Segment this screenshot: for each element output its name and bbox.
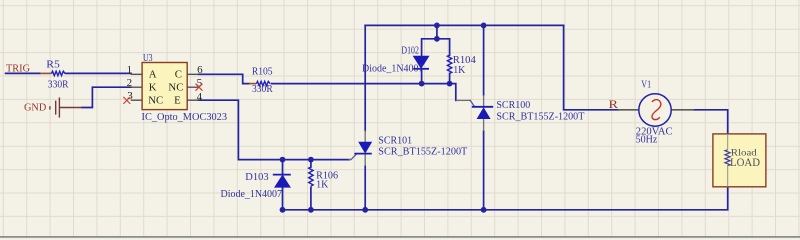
- triangle: [359, 142, 372, 153]
- wire R106 top: [310, 160, 312, 167]
- U3 pin 5: [187, 86, 198, 88]
- svg-text:SCR_BT155Z-1200T: SCR_BT155Z-1200T: [378, 147, 468, 158]
- junction D103 top on gate net: [280, 157, 286, 163]
- svg-text:R105: R105: [252, 67, 273, 78]
- U3 pin 3: [131, 99, 142, 101]
- no-ERC cross pin 5: [196, 84, 203, 91]
- svg-text:D103: D103: [245, 172, 268, 183]
- wire SCR101 cathode to bottom rail: [364, 166, 366, 210]
- svg-text:K: K: [149, 81, 157, 93]
- junction R104 bottom on net: [447, 81, 453, 87]
- diode D103: [273, 175, 291, 188]
- load Rload body: [713, 134, 766, 187]
- svg-text:NC: NC: [148, 94, 163, 106]
- diode D102: [413, 56, 429, 69]
- svg-text:GND: GND: [24, 102, 46, 114]
- svg-text:330R: 330R: [48, 80, 69, 91]
- wire R106 bottom: [310, 187, 312, 210]
- resistor R105: [249, 81, 270, 85]
- svg-text:A: A: [149, 68, 157, 80]
- wire SCR100 anode to bottom rail: [483, 131, 485, 210]
- SCR100: [456, 95, 493, 131]
- no-ERC cross pin 3: [123, 97, 130, 104]
- op-to coupler U3 body: [142, 63, 187, 110]
- svg-text:330R: 330R: [252, 84, 273, 95]
- svg-text:V1: V1: [641, 79, 651, 90]
- svg-text:R: R: [609, 99, 619, 111]
- cathode pin stub: [483, 95, 485, 107]
- svg-text:D102: D102: [401, 45, 419, 56]
- U3 pin 2: [131, 86, 142, 88]
- resistor R5: [40, 71, 65, 75]
- wire SCR101 anode from top rail: [364, 25, 366, 130]
- svg-text:NC: NC: [168, 81, 183, 93]
- svg-text:E: E: [174, 94, 181, 106]
- wire SCR100 cathode from top rail: [483, 25, 485, 95]
- SCR101: [349, 131, 372, 167]
- junction D102 cathode on net: [419, 81, 425, 87]
- svg-text:Diode_1N4007: Diode_1N4007: [221, 189, 283, 200]
- cathode pin stub: [364, 154, 366, 166]
- svg-text:Diode_1N4007: Diode_1N4007: [362, 64, 424, 75]
- junction D103 bottom on bottom rail: [280, 207, 286, 213]
- power port GND: [50, 97, 82, 117]
- wire GND to U3 pin2: [82, 87, 131, 107]
- svg-text:TRIG: TRIG: [6, 63, 30, 75]
- U3 pin 6: [187, 73, 198, 75]
- V1 pin stubs: [618, 109, 694, 111]
- junction top rail / D102-R104 branch: [434, 23, 440, 29]
- svg-text:3: 3: [127, 90, 133, 102]
- wire TRIG to R5: [6, 72, 40, 74]
- triangle: [477, 108, 490, 119]
- svg-text:SCR100: SCR100: [496, 100, 530, 111]
- svg-text:C: C: [175, 68, 182, 80]
- wire R104 bottom: [449, 73, 451, 83]
- U3 pin 1: [131, 73, 142, 75]
- wire U3 pin6 to R105: [199, 74, 249, 83]
- anode pin stub: [483, 119, 485, 131]
- wire V1 right to load: [694, 110, 728, 134]
- svg-text:1: 1: [127, 64, 133, 76]
- junction R106 bottom on bottom rail: [308, 207, 314, 213]
- wire R105 to SCR100 gate net: [272, 84, 456, 101]
- sheet bottom border: [0, 236, 800, 238]
- junction R106 top on gate net: [308, 157, 314, 163]
- svg-text:LOAD: LOAD: [730, 155, 760, 169]
- svg-text:2: 2: [127, 77, 133, 89]
- svg-text:R5: R5: [46, 59, 60, 70]
- cathode bar: [472, 106, 493, 108]
- U3 pin 4: [187, 99, 198, 101]
- svg-text:U3: U3: [143, 53, 153, 64]
- svg-text:6: 6: [197, 64, 203, 76]
- svg-text:SCR101: SCR101: [378, 136, 412, 147]
- wire U3 pin4 down to gate net of SCR101: [199, 100, 350, 159]
- wire R5 to U3 pin1: [66, 72, 132, 74]
- svg-text:1K: 1K: [316, 180, 329, 191]
- svg-text:IC_Opto_MOC3023: IC_Opto_MOC3023: [142, 112, 228, 123]
- svg-text:1K: 1K: [453, 65, 466, 76]
- wire bottom rail: [283, 187, 728, 210]
- wire D103 top: [282, 160, 284, 174]
- AC source V1: [639, 94, 671, 126]
- junction SCR100 anode on bottom rail: [481, 207, 487, 213]
- anode pin stub: [364, 131, 366, 143]
- Rload zigzag: [725, 150, 730, 166]
- junction SCR101 cathode on bottom rail: [362, 207, 368, 213]
- gate pin: [349, 159, 351, 161]
- wire D103 anode to bottom rail: [282, 187, 284, 210]
- svg-text:SCR_BT155Z-1200T: SCR_BT155Z-1200T: [496, 111, 585, 122]
- resistor R106: [309, 167, 313, 186]
- wire V1 left leg: [564, 25, 618, 109]
- junction D102/R104 split: [434, 36, 440, 42]
- gate pin: [456, 99, 471, 101]
- resistor R104: [447, 55, 451, 73]
- junction top rail / SCR100 cathode: [481, 23, 487, 29]
- svg-text:50Hz: 50Hz: [636, 134, 658, 145]
- wire D102 cathode to net: [421, 69, 423, 84]
- V1 sine squiggle: [652, 100, 661, 120]
- svg-text:4: 4: [197, 91, 203, 103]
- Rload internal leads: [727, 134, 729, 187]
- wire top rail: [365, 24, 563, 26]
- cathode bar: [354, 153, 371, 155]
- wire D102 R104 branch from top rail: [422, 25, 450, 55]
